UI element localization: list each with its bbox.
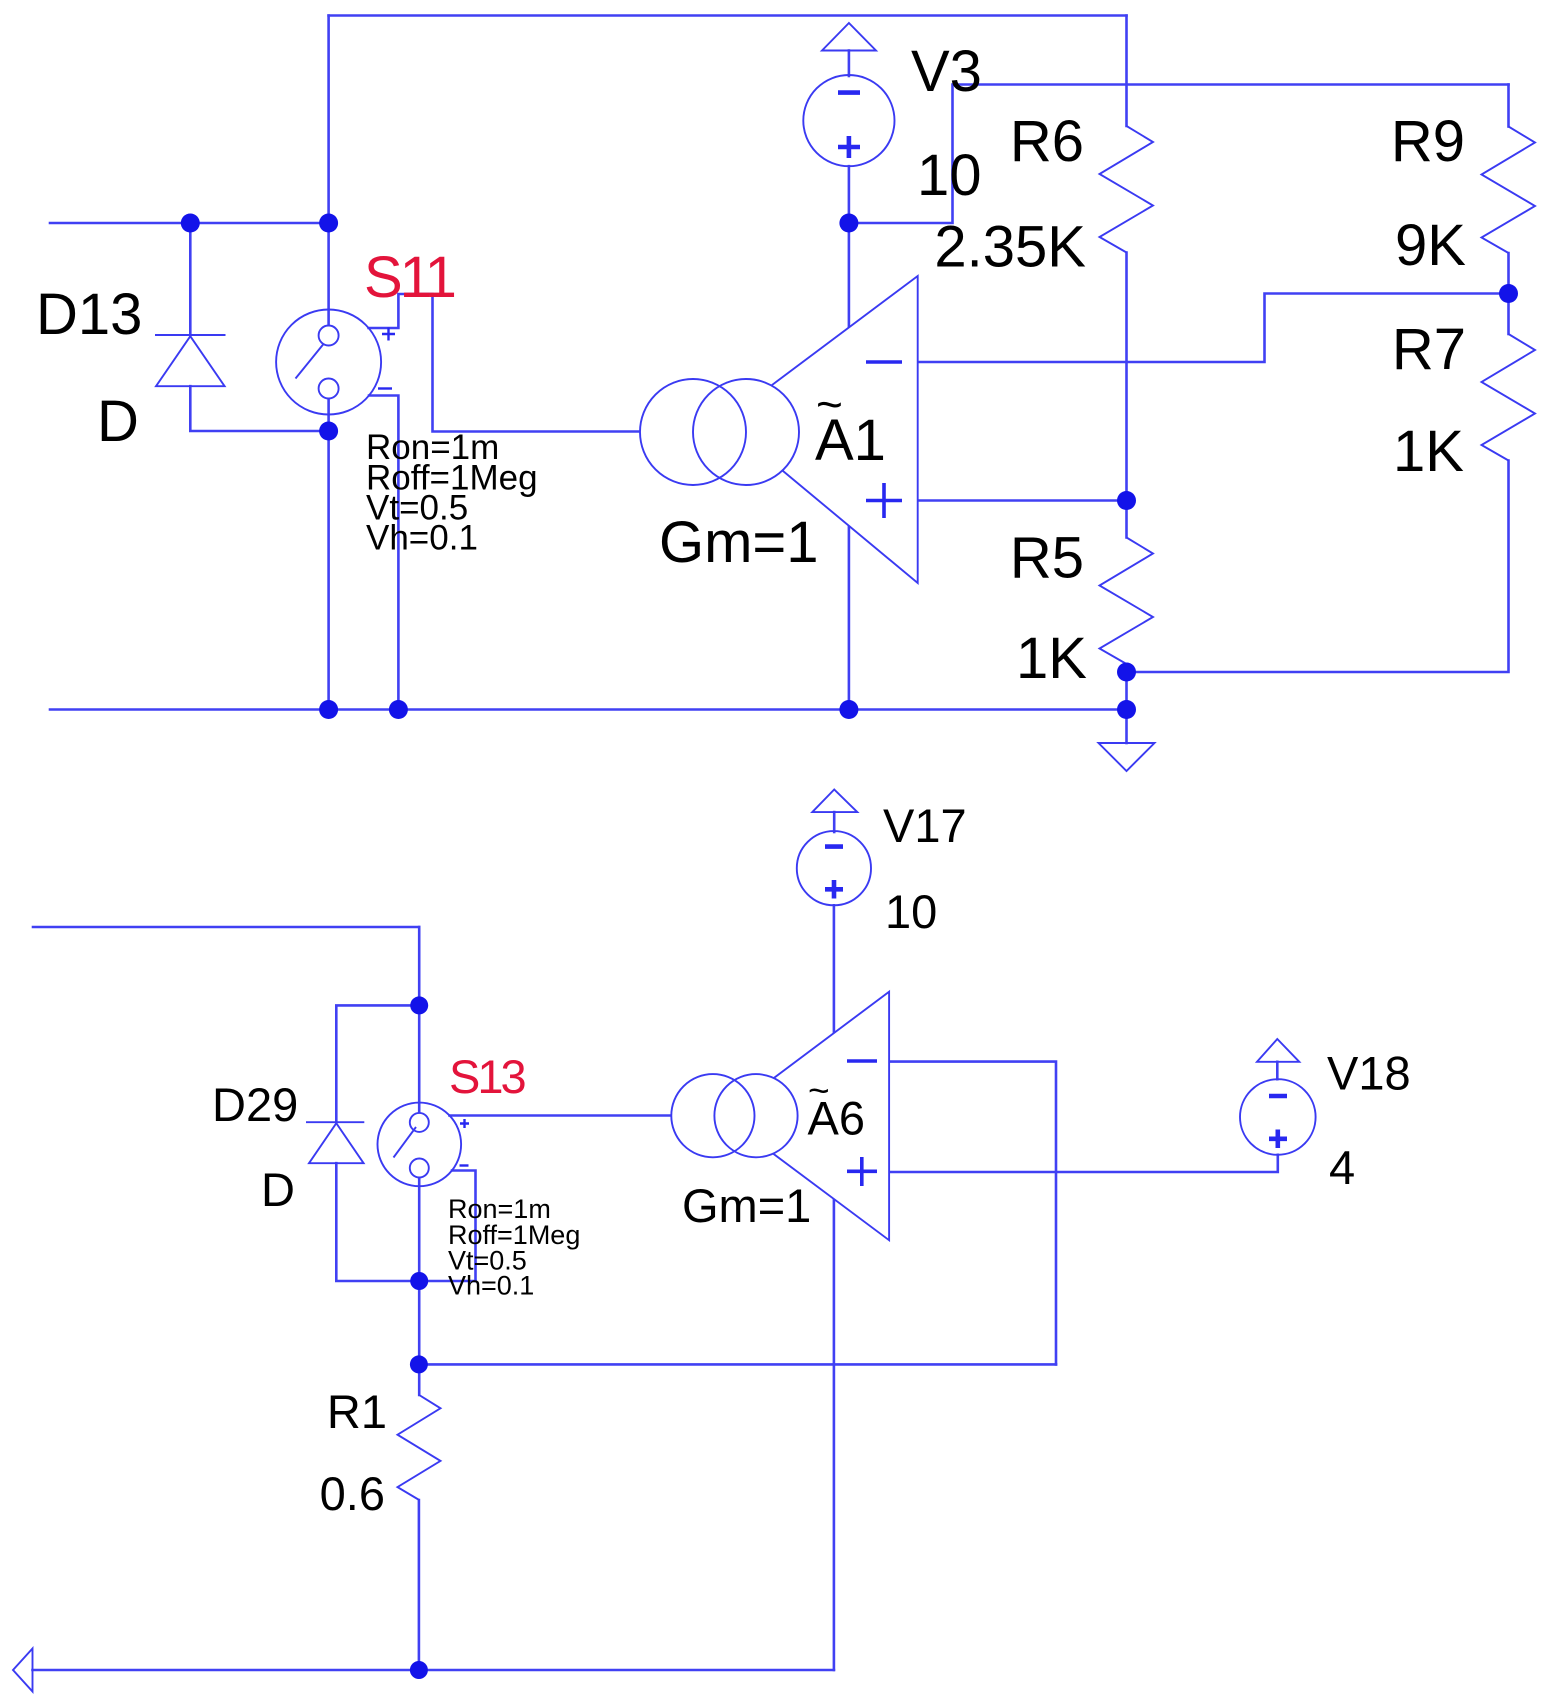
wire D13 top lead <box>189 223 192 335</box>
svg-text:V3: V3 <box>911 39 982 104</box>
wire bottom ground rail <box>50 708 1127 711</box>
voltage source V18 <box>1240 1039 1316 1155</box>
wire R9 top lead <box>1507 85 1510 127</box>
resistor R7 <box>1482 334 1536 461</box>
wire S11 minus control to ground rail <box>369 396 398 710</box>
wire S13 column upper <box>418 927 421 1113</box>
wire left vertical upper <box>327 16 330 326</box>
svg-text:9K: 9K <box>1395 213 1466 278</box>
svg-text:D13: D13 <box>36 282 142 347</box>
wire S13 column lower <box>418 1177 421 1395</box>
junction dots bottom <box>410 996 428 1679</box>
wire R6 top lead <box>1125 16 1128 127</box>
wire D29 branch <box>336 1005 475 1281</box>
svg-text:~: ~ <box>808 1070 830 1111</box>
voltage source V17 <box>797 790 871 906</box>
resistor R9 <box>1482 127 1536 254</box>
wire A6 plus input to V18 <box>889 1155 1278 1172</box>
wire feedback to R1 top <box>419 1363 1056 1366</box>
svg-text:R6: R6 <box>1010 109 1084 174</box>
svg-text:Gm=1: Gm=1 <box>682 1179 811 1232</box>
switch S13 <box>378 1103 470 1187</box>
junction dots top <box>181 214 1518 720</box>
svg-text:D: D <box>261 1163 295 1216</box>
resistor R6 <box>1100 126 1154 253</box>
svg-text:R1: R1 <box>327 1385 387 1438</box>
svg-text:4: 4 <box>1329 1141 1355 1194</box>
svg-text:1K: 1K <box>1393 419 1464 484</box>
wire R6 to R5 column <box>1125 253 1128 538</box>
svg-text:2.35K: 2.35K <box>934 215 1086 280</box>
wire R9 R7 junction leads <box>1507 253 1510 334</box>
wire A1 minus input to R9 R7 node <box>918 294 1509 363</box>
svg-text:S13: S13 <box>449 1050 525 1103</box>
svg-text:D29: D29 <box>212 1078 298 1131</box>
svg-text:Gm=1: Gm=1 <box>659 510 819 575</box>
svg-text:V18: V18 <box>1327 1047 1411 1100</box>
diode D13 <box>155 335 226 386</box>
wire top rail <box>329 14 1127 17</box>
wire bottom rail <box>33 1669 834 1672</box>
wire V17 arrow stub <box>833 812 836 832</box>
svg-text:R7: R7 <box>1392 317 1466 382</box>
wire V3 arrow stub <box>848 51 851 77</box>
label S11 parameters <box>366 428 538 558</box>
svg-text:~: ~ <box>816 378 843 430</box>
svg-text:S11: S11 <box>364 245 455 310</box>
svg-text:D: D <box>97 389 139 454</box>
wire A6 minus input feedback <box>889 1062 1056 1365</box>
op-amp A6 <box>671 992 889 1240</box>
ground arrow left <box>13 1649 33 1692</box>
wire bottom top-left input <box>33 926 419 929</box>
svg-text:1K: 1K <box>1016 626 1087 691</box>
op-amp A1 <box>640 276 918 583</box>
svg-text:10: 10 <box>885 885 937 938</box>
ground symbol top <box>1099 743 1155 771</box>
wire node V3 plus to R9 top <box>849 85 1509 224</box>
label S13 parameters <box>448 1194 580 1301</box>
wire V17 to bottom rail column <box>833 905 836 1670</box>
resistor R5 <box>1100 538 1154 665</box>
voltage source V3 <box>803 23 894 166</box>
wire D13 bottom lead <box>190 386 328 431</box>
svg-text:10: 10 <box>917 143 982 208</box>
diode D29 <box>306 1122 364 1163</box>
svg-text:V17: V17 <box>883 799 967 852</box>
svg-text:0.6: 0.6 <box>320 1467 385 1520</box>
svg-text:R5: R5 <box>1010 526 1084 591</box>
wire left input stub <box>50 222 329 225</box>
wire S13 minus control <box>452 1171 476 1282</box>
wire R5 bottom lead <box>1125 664 1128 710</box>
wire left vertical lower <box>327 398 330 709</box>
svg-text:Vh=0.1: Vh=0.1 <box>366 519 478 558</box>
svg-text:Vh=0.1: Vh=0.1 <box>448 1271 534 1301</box>
wire A1 plus input <box>918 499 1127 502</box>
resistor R1 <box>398 1395 441 1500</box>
svg-text:R9: R9 <box>1391 109 1465 174</box>
wire R1 bottom lead <box>418 1500 421 1670</box>
switch S11 <box>276 310 395 415</box>
wire ground stub <box>1125 710 1128 744</box>
wire V3 to ground column <box>848 166 851 709</box>
wire S11 plus control to A1 input <box>369 294 655 432</box>
wire S13 plus control to A6 input <box>450 1114 686 1117</box>
wire R5 bottom to R7 bottom <box>1127 461 1509 673</box>
